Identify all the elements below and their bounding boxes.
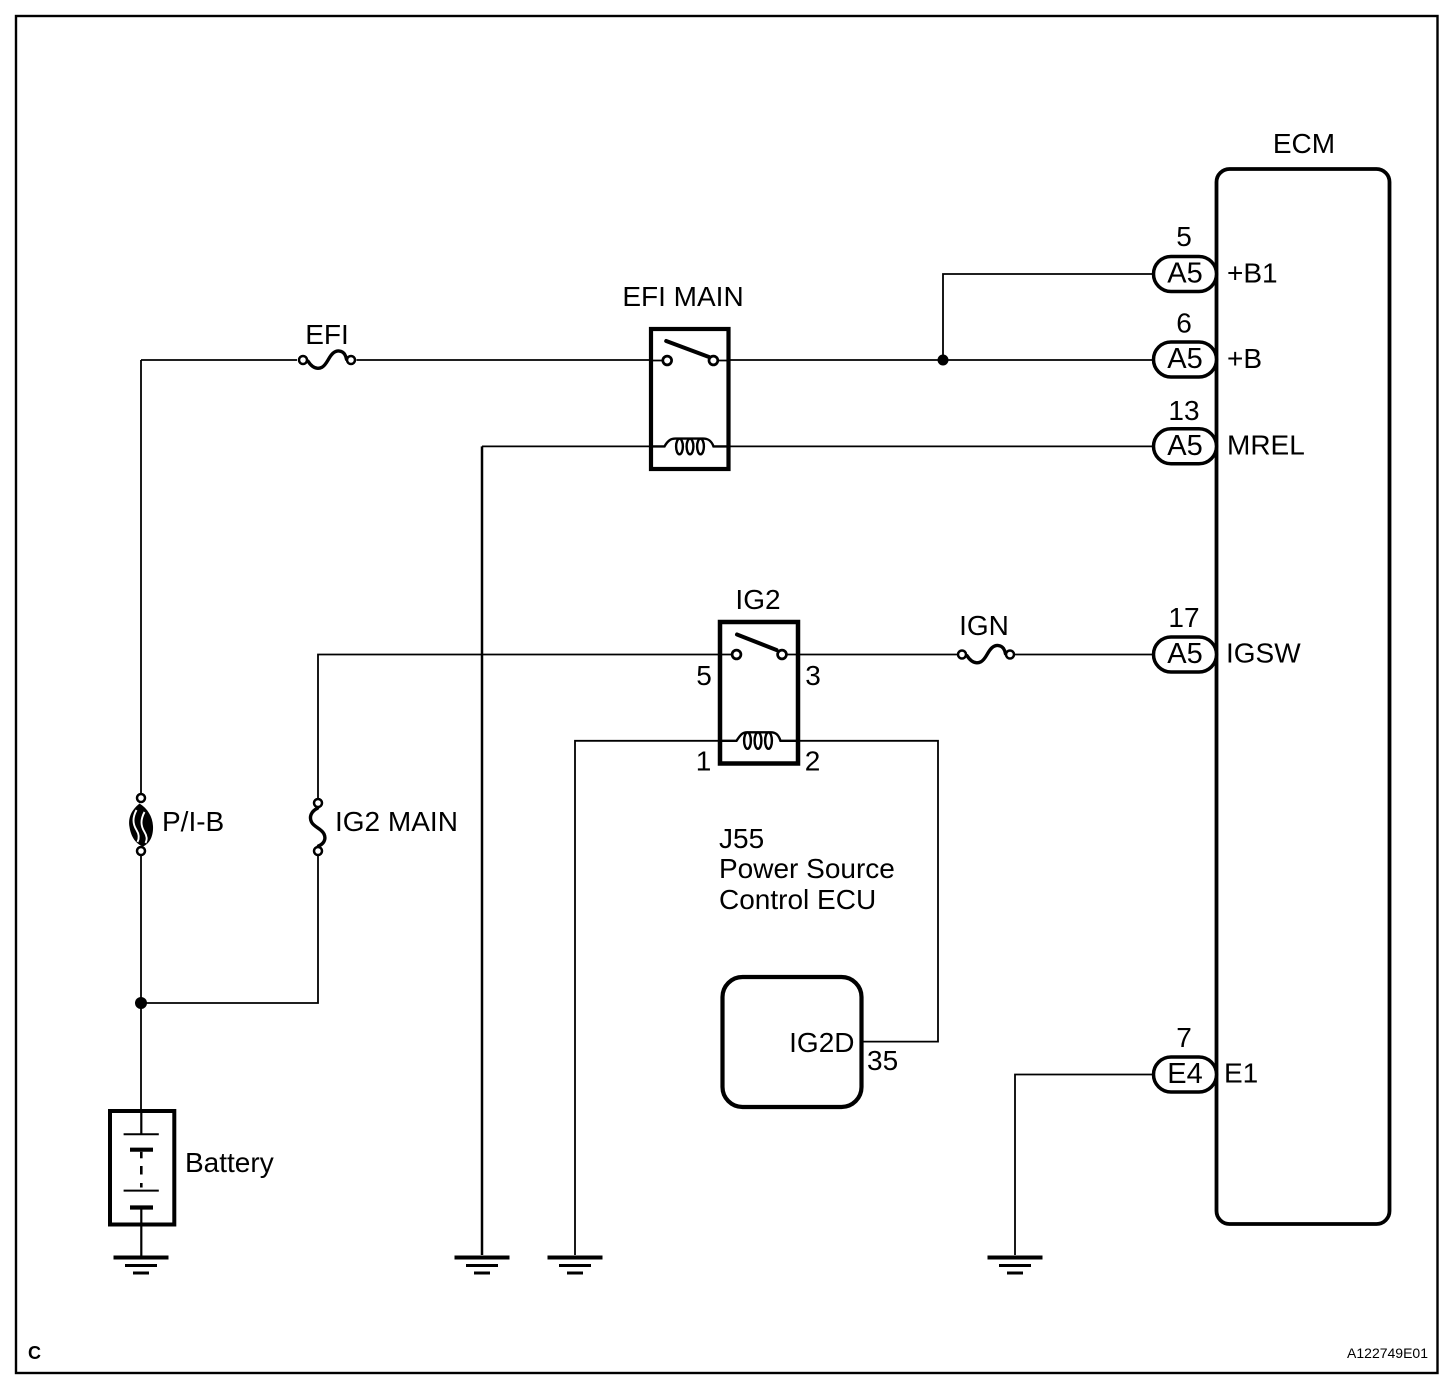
svg-text:+B: +B (1227, 343, 1262, 374)
wire IG2 pin1 to ground (575, 741, 720, 1255)
wire IG2 pin5 to IG2 MAIN fuse (318, 655, 720, 799)
connector A5 MREL (1154, 429, 1217, 464)
fuse EFI (299, 351, 355, 368)
wire EFI fuse row left (141, 359, 297, 361)
svg-text:+B1: +B1 (1227, 257, 1278, 288)
wire relay switch to +B (729, 359, 1154, 361)
svg-text:IGSW: IGSW (1226, 638, 1301, 669)
wire IG2 MAIN fuse to junction (141, 856, 318, 1003)
fuse IGN (958, 645, 1014, 662)
wire +B1 branch (943, 274, 1154, 360)
svg-text:J55: J55 (719, 823, 764, 854)
junction +B branch (938, 355, 949, 366)
svg-text:13: 13 (1168, 395, 1199, 426)
junction battery rail (135, 997, 147, 1009)
svg-text:IG2D: IG2D (789, 1027, 854, 1058)
battery (110, 1111, 174, 1225)
svg-text:A5: A5 (1167, 430, 1202, 462)
relay EFI MAIN switch (651, 341, 729, 365)
relay EFI MAIN coil (651, 439, 729, 455)
svg-text:A5: A5 (1167, 343, 1202, 375)
svg-text:3: 3 (805, 660, 821, 691)
ground E1 (988, 1258, 1043, 1274)
wire EFI fuse to EFI MAIN relay (357, 359, 652, 361)
svg-text:E4: E4 (1167, 1058, 1202, 1090)
connector E4 E1 (1154, 1057, 1217, 1092)
svg-text:MREL: MREL (1227, 430, 1305, 461)
wire battery to ground (140, 1225, 142, 1256)
wire relay coil to ground rail (482, 445, 651, 447)
connector IG2D box (723, 977, 862, 1107)
svg-text:IG2: IG2 (735, 584, 780, 615)
svg-text:C: C (28, 1343, 41, 1363)
ground MREL rail (455, 1258, 510, 1274)
svg-text:P/I-B: P/I-B (162, 806, 224, 837)
wire relay coil to MREL (729, 445, 1154, 447)
svg-text:A122749E01: A122749E01 (1347, 1345, 1428, 1361)
fuse IG2 MAIN (310, 799, 324, 855)
svg-text:1: 1 (696, 746, 712, 777)
relay EFI MAIN box (651, 329, 729, 469)
svg-text:A5: A5 (1167, 258, 1202, 290)
svg-text:7: 7 (1176, 1022, 1192, 1053)
wire IG2 pin2 to IG2D (798, 741, 938, 1042)
svg-text:17: 17 (1168, 602, 1199, 633)
svg-text:EFI MAIN: EFI MAIN (622, 281, 743, 312)
svg-text:Power Source: Power Source (719, 853, 895, 884)
svg-text:Battery: Battery (185, 1147, 274, 1178)
ground IG2 pin1 (548, 1258, 603, 1274)
connector A5 IGSW (1154, 637, 1217, 672)
svg-text:E1: E1 (1224, 1058, 1258, 1089)
svg-text:5: 5 (696, 660, 712, 691)
wire E1 to ground (1015, 1075, 1155, 1256)
svg-text:Control ECU: Control ECU (719, 884, 876, 915)
fusible link P/I-B (129, 794, 153, 855)
relay IG2 coil (720, 732, 798, 749)
connector A5 +B (1154, 342, 1217, 377)
wire MREL ground vertical (481, 446, 484, 1255)
ground battery (114, 1258, 169, 1274)
svg-text:IGN: IGN (959, 610, 1009, 641)
svg-text:ECM: ECM (1273, 128, 1335, 159)
wire battery positive vertical (B+ rail) (140, 360, 142, 793)
wire IG2 pin3 to IGN fuse (799, 654, 957, 656)
relay IG2 box (720, 622, 798, 764)
svg-text:2: 2 (805, 746, 821, 777)
svg-text:IG2 MAIN: IG2 MAIN (335, 806, 458, 837)
svg-text:6: 6 (1176, 308, 1192, 339)
connector A5 +B1 (1154, 257, 1217, 292)
wire IGN fuse to IGSW (1015, 654, 1155, 656)
label J55 Power Source Control ECU (719, 823, 895, 915)
svg-text:EFI: EFI (305, 319, 349, 350)
wire P/I-B to junction to battery (140, 856, 142, 1111)
relay IG2 switch (720, 635, 798, 659)
svg-text:A5: A5 (1167, 638, 1202, 670)
svg-text:5: 5 (1176, 221, 1192, 252)
svg-text:35: 35 (867, 1045, 898, 1076)
ECM box (1217, 169, 1390, 1224)
